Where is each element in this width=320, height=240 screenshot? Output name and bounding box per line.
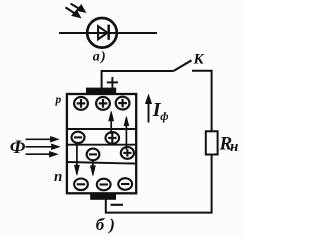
electron drift arrow down 2 (91, 160, 96, 176)
svg-text:p: p (55, 94, 62, 106)
electron symbol ⊖ n2 (97, 179, 111, 191)
bottom electrode (- contact) (90, 194, 116, 200)
junction line 2 (67, 144, 136, 146)
light arrow 1 (upper incident ray) (71, 4, 86, 13)
svg-text:а): а) (93, 49, 107, 64)
hole drift arrow up 2 (124, 117, 129, 150)
hole symbol ⊕ p2 (96, 97, 110, 110)
svg-text:б): б) (96, 215, 120, 234)
switch K blade (174, 60, 192, 71)
wire (top electrode to switch) (102, 71, 174, 89)
svg-text:н: н (230, 139, 238, 155)
electron symbol ⊖ n1 (74, 179, 88, 191)
hole symbol ⊕ (upper junction, right) (106, 132, 120, 144)
wire (resistor to bottom electrode) (106, 154, 212, 212)
electron symbol ⊖ (upper junction, left) (72, 132, 85, 143)
flux arrow 1 (26, 137, 59, 142)
resistor Rн body (206, 131, 218, 154)
label Ф (light flux) (10, 138, 26, 158)
label а) (93, 49, 107, 64)
photocurrent arrow Iф (146, 95, 152, 123)
electron symbol ⊖ n3 (118, 178, 132, 190)
label p (p-region) (55, 94, 62, 106)
flux arrow 3 (26, 152, 58, 157)
label + (positive polarity) (107, 77, 118, 88)
svg-text:К: К (193, 52, 205, 68)
photodiode VD cathode bar (107, 25, 110, 40)
wire (horizontal lead through photodiode symbol) (59, 32, 157, 34)
svg-text:ф: ф (160, 111, 168, 123)
light arrow 2 (lower incident ray) (66, 7, 81, 17)
junction line 1 (67, 128, 136, 130)
junction line 3 (67, 162, 136, 164)
semiconductor body rectangle (67, 94, 136, 193)
photodiode VD circle (87, 18, 117, 48)
top electrode (+ contact) (86, 88, 116, 95)
svg-text:n: n (54, 169, 62, 185)
hole symbol ⊕ p1 (74, 97, 88, 110)
electron drift arrow down 1 (75, 142, 80, 175)
label Iф (152, 99, 169, 123)
hole symbol ⊕ (lower junction, right) (121, 147, 134, 159)
svg-text:Ф: Ф (10, 138, 26, 158)
electron symbol ⊖ (lower junction, left) (87, 149, 100, 161)
wire (switch right contact to resistor) (192, 71, 212, 132)
label - (negative polarity) (111, 204, 123, 206)
label Rн (219, 133, 239, 155)
hole symbol ⊕ p3 (116, 97, 130, 110)
photodiode VD triangle (anode) (98, 26, 107, 39)
hole drift arrow up 1 (109, 111, 114, 134)
label n (n-region) (54, 169, 62, 185)
label б) (96, 215, 120, 234)
label К (193, 52, 205, 68)
flux arrow 2 (26, 144, 60, 149)
